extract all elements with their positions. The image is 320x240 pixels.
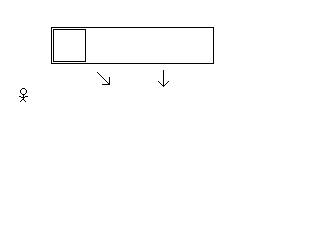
vertical arrow (down) bbox=[158, 70, 169, 87]
arrowhead horizontal barb bbox=[102, 84, 110, 85]
arrowhead vertical barb bbox=[109, 77, 110, 85]
head bbox=[22, 88, 25, 89]
left arm bbox=[19, 96, 21, 97]
right leg bbox=[24, 100, 25, 101]
left leg bbox=[22, 99, 23, 100]
arrowhead left barb bbox=[158, 81, 159, 82]
actor stick figure bbox=[19, 88, 28, 102]
body bbox=[23, 95, 24, 100]
arrowhead right barb bbox=[168, 81, 169, 82]
shaft bbox=[163, 70, 164, 87]
diagonal arrow (down-right) bbox=[97, 72, 110, 85]
outer rectangle (wide box) bbox=[52, 28, 214, 64]
shaft bbox=[97, 72, 98, 73]
inner square (left cell) bbox=[54, 30, 86, 62]
right arm bbox=[25, 96, 28, 97]
